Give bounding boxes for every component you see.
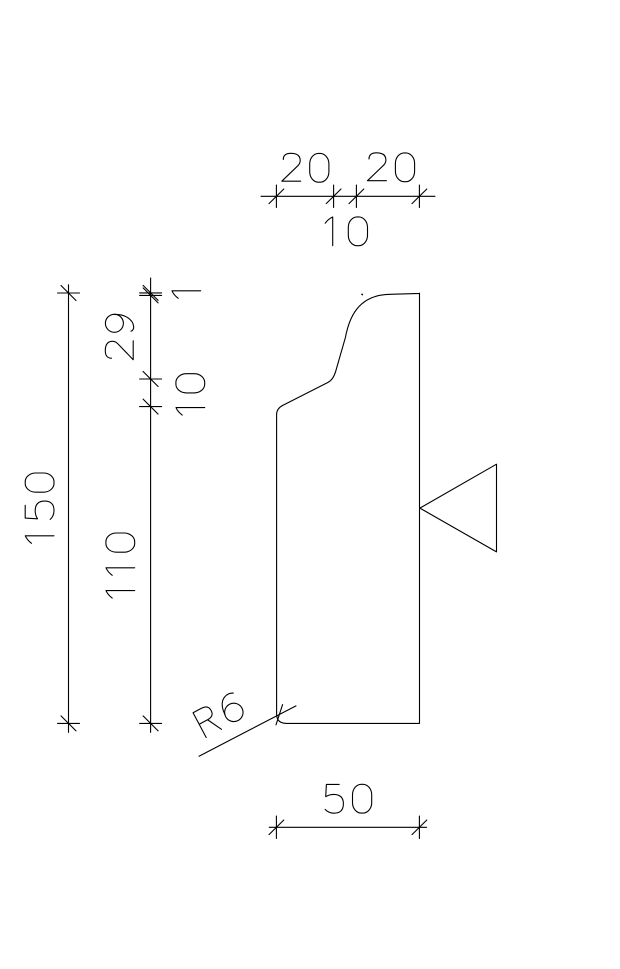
text 150 bbox=[25, 473, 54, 543]
profile outline bbox=[277, 293, 420, 723]
inner dim tick y=295.4 bbox=[140, 288, 162, 303]
view direction triangle marker bbox=[420, 464, 497, 552]
bottom dimension line 50 bbox=[269, 826, 426, 828]
text 10 (left side) bbox=[176, 374, 205, 415]
text 20 (top left) bbox=[282, 153, 329, 182]
R6 leader line bbox=[199, 706, 296, 756]
stray node dot bbox=[361, 293, 363, 295]
left dimension line 150 bbox=[68, 285, 70, 733]
text R6 bbox=[193, 691, 246, 737]
text 50 bbox=[325, 784, 372, 813]
text 10 (below top dim) bbox=[325, 217, 367, 246]
top dim tick x=276.4 bbox=[269, 185, 284, 207]
text 110 bbox=[106, 533, 135, 598]
R6 leader tick bbox=[276, 705, 283, 725]
inner dim tick y=723.4 bbox=[140, 716, 162, 731]
top dimension line bbox=[261, 195, 435, 197]
inner dimension line 1/29/10/110 bbox=[150, 278, 152, 732]
top dim tick x=356.4 bbox=[349, 185, 364, 207]
inner dim tick y=292.9 bbox=[140, 285, 162, 300]
text 20 (top right) bbox=[368, 153, 415, 182]
top dim tick x=419.4 bbox=[412, 185, 427, 207]
text 1 bbox=[172, 291, 201, 299]
150 dim tick y=293.0 bbox=[58, 286, 80, 301]
inner dim tick y=406.6 bbox=[140, 399, 162, 414]
bottom dim tick x=419.4 bbox=[412, 816, 427, 838]
text 29 bbox=[105, 314, 133, 359]
150 dim tick y=723.4 bbox=[58, 716, 80, 731]
bottom dim tick x=276.4 bbox=[269, 816, 284, 838]
inner dim tick y=379 bbox=[140, 372, 162, 387]
top dim tick x=333.6 bbox=[326, 185, 341, 207]
